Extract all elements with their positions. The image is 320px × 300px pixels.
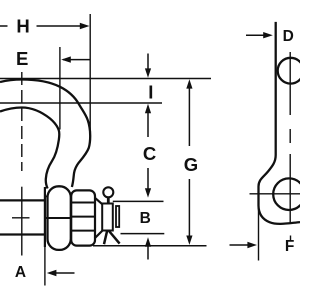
nut chamfer bottom: [95, 231, 103, 239]
pin centerline through ear: [45, 217, 71, 219]
leader line bow outer top: [0, 78, 211, 80]
dimension B bottom arrow: [145, 237, 151, 246]
leader line pin top (B): [113, 200, 164, 202]
dimension D arrowhead: [263, 32, 273, 38]
side view centerline dash below ear: [290, 236, 292, 241]
pin axis center cross dash: [12, 217, 30, 219]
svg-text:G: G: [184, 154, 198, 175]
dimension G bottom arrow: [188, 179, 190, 237]
dimension H line: [37, 25, 82, 27]
pin shank top edge: [0, 199, 45, 201]
svg-text:B: B: [140, 210, 151, 227]
ear face tick: [44, 195, 48, 197]
side view body profile: [259, 22, 301, 224]
dimension A line: [55, 272, 75, 274]
svg-text:A: A: [15, 264, 26, 281]
pin shank bottom edge: [0, 233, 45, 235]
svg-text:D: D: [283, 28, 294, 45]
dimension E line: [63, 59, 90, 61]
cotter pin ring: [103, 187, 113, 197]
dimension H line left stub: [0, 25, 8, 27]
nut chamfer top: [95, 198, 103, 205]
bow vertical centerline: [21, 72, 23, 171]
dimension I / C shared up arrow: [145, 104, 151, 113]
dimension H extension line: [89, 14, 91, 138]
dimension F extension line: [258, 208, 260, 261]
dimension A extension line: [44, 247, 46, 286]
side view bow section circle: [278, 58, 304, 84]
nut flat line 2: [71, 216, 95, 218]
side view crosshair horizontal: [250, 193, 301, 195]
leader line shackle bottom (G): [93, 245, 207, 247]
side view pin hole: [273, 178, 305, 210]
bolt protruding end: [102, 204, 113, 231]
leader line pin bottom (B): [121, 233, 165, 235]
svg-text:F: F: [285, 238, 294, 255]
dimension C down arrow: [147, 168, 149, 190]
svg-text:E: E: [16, 48, 28, 69]
side view centerline dash: [289, 129, 291, 143]
dimension H arrowhead: [80, 23, 90, 29]
dimension G top arrow: [186, 79, 192, 88]
svg-text:I: I: [148, 82, 153, 103]
side view centerline solid segment: [289, 52, 291, 115]
right ear boss: [48, 186, 71, 250]
svg-text:H: H: [16, 16, 29, 37]
dimension E extension line: [59, 47, 61, 130]
leader line bow inner top: [0, 102, 162, 104]
dimension F arrowhead: [247, 242, 257, 248]
bow outer arc (front view): [0, 80, 90, 188]
cotter pin neck: [107, 197, 110, 203]
side view crosshair vertical: [289, 154, 291, 224]
svg-text:C: C: [143, 143, 156, 164]
dimension F line: [230, 244, 250, 246]
cotter pin left leg: [104, 231, 107, 245]
dimension E arrowhead: [61, 56, 71, 62]
dimension A arrowhead: [47, 270, 57, 276]
ear inner face line: [44, 187, 46, 247]
dimension D line: [246, 34, 265, 36]
nut flat line 1: [71, 202, 95, 204]
washer: [116, 206, 119, 227]
bow inner arc (front view opening): [0, 108, 59, 189]
nut flat line 3: [71, 230, 95, 232]
dimension I top arrow: [147, 54, 149, 70]
hex nut: [71, 190, 95, 245]
cotter pin right leg: [109, 231, 120, 244]
